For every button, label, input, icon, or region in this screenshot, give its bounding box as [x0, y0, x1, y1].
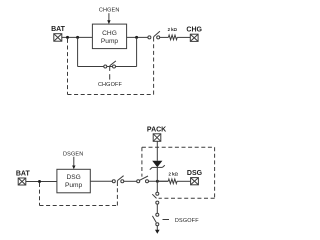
svg-text:PACK: PACK — [147, 126, 166, 133]
switch S5 (discharge FET lower switch, on FET boundary) — [152, 192, 159, 204]
block U2: DSG Pump — [57, 169, 90, 193]
pin BAT (charge section) — [54, 34, 62, 42]
switch S3 (discharge pump switch) — [112, 176, 124, 186]
wire output junction down to CHGOFF row — [136, 37, 138, 66]
svg-text:CHGOFF: CHGOFF — [98, 82, 123, 88]
wire CHGOFF row — [78, 66, 137, 68]
svg-text:DSGOFF: DSGOFF — [175, 218, 199, 224]
resistor 2k (discharge path) — [168, 179, 177, 184]
wire junction to resistor (discharge) — [157, 180, 168, 182]
node: BAT / dashed control junction (discharge) — [38, 180, 41, 183]
wire S3 to S4 — [124, 180, 137, 182]
svg-text:CHGEN: CHGEN — [99, 7, 120, 13]
svg-text:DSG: DSG — [66, 174, 80, 181]
dashed control wire: BAT junction down — [67, 39, 69, 95]
switch S1 (charge pass switch) — [148, 31, 160, 41]
wire resistor to DSG pin — [177, 180, 191, 182]
svg-text:DSG: DSG — [187, 170, 203, 177]
dashed control rail (charge section) — [68, 94, 154, 96]
wire S5 to S6 — [156, 204, 158, 213]
wire junction down to S5 — [156, 181, 158, 192]
wire S4 to zener junction — [149, 180, 169, 182]
svg-text:BAT: BAT — [51, 26, 66, 33]
arrow CHGEN into CHG Pump — [107, 13, 110, 24]
dashed control rail (discharge section) — [40, 205, 118, 207]
wire BAT to DSG Pump — [26, 181, 57, 183]
pin PACK — [153, 134, 161, 142]
pin CHG — [190, 34, 198, 41]
pin DSG — [191, 178, 199, 185]
wire S1 to resistor — [160, 36, 169, 38]
dashed FET boundary: top edge — [142, 146, 215, 148]
dashed control wire up to switch S3 — [116, 187, 118, 206]
zener diode (PACK to junction) — [150, 161, 165, 170]
wire resistor to CHG pin — [177, 36, 190, 38]
dashed FET boundary: bottom edge to S5 blade — [159, 197, 215, 199]
wire DSG Pump output — [90, 180, 112, 182]
arrow DSGEN into DSG Pump — [72, 157, 75, 170]
svg-text:DSGEN: DSGEN — [63, 151, 83, 157]
svg-text:Pump: Pump — [101, 38, 119, 45]
dashed control wire up to switch S1 — [153, 44, 155, 95]
block U1: CHG Pump — [92, 24, 126, 48]
dash to DSGOFF label — [163, 219, 170, 221]
svg-text:CHG: CHG — [102, 30, 117, 37]
dashed control wire: BAT junction down (discharge) — [39, 183, 41, 206]
dashed FET boundary: right edge — [214, 147, 216, 198]
resistor 2k (charge path) — [168, 35, 177, 40]
svg-text:CHG: CHG — [186, 26, 202, 33]
wire zener to junction — [156, 167, 158, 181]
switch S4 (discharge pass switch, on FET boundary) — [137, 176, 149, 183]
wire CHG Pump output — [127, 36, 148, 38]
svg-text:Pump: Pump — [65, 182, 83, 189]
wire BAT to CHG Pump — [62, 36, 93, 38]
switch S6 (DSGOFF) — [152, 213, 158, 226]
node: pump output junction — [135, 36, 138, 39]
wire PACK down to zener — [156, 141, 158, 161]
wire S6 down to arrow — [156, 226, 158, 231]
pin BAT (discharge section) — [18, 178, 26, 185]
svg-text:BAT: BAT — [16, 170, 31, 177]
arrow to PACK- (down) — [155, 230, 160, 234]
node: zener / DSG junction — [156, 180, 159, 183]
switch S2 (CHGOFF) — [104, 61, 116, 80]
node: BAT / CHGOFF-row junction — [76, 36, 79, 39]
svg-text:2 kΩ: 2 kΩ — [168, 27, 178, 32]
dashed FET boundary: left edge down to S4 blade — [141, 147, 143, 176]
node: BAT / dashed control junction — [66, 36, 69, 39]
svg-text:2 kΩ: 2 kΩ — [168, 171, 178, 176]
wire BAT junction down to CHGOFF row — [77, 37, 79, 66]
